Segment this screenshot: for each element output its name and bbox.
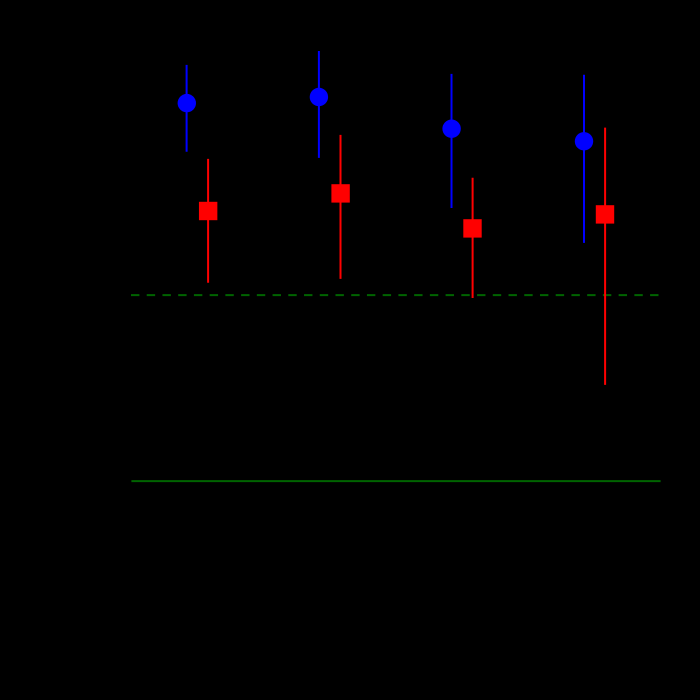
blue error bar 3 xyxy=(451,74,453,208)
blue error bar 1 xyxy=(186,65,188,152)
green solid reference line xyxy=(131,480,660,482)
blue error bar 2 xyxy=(318,51,320,158)
red point 2 xyxy=(331,184,349,202)
red error bar 1 xyxy=(207,159,209,283)
red error bar 4 xyxy=(604,128,606,385)
red point 1 xyxy=(199,202,217,220)
red point 4 xyxy=(596,205,614,223)
red point 3 xyxy=(463,219,481,237)
blue point 2 xyxy=(310,88,328,106)
blue point 4 xyxy=(575,132,593,150)
green dashed reference line xyxy=(131,294,659,296)
blue error bar 4 xyxy=(583,75,585,243)
blue point 1 xyxy=(178,94,196,112)
blue point 3 xyxy=(442,120,460,138)
red error bar 3 xyxy=(472,178,474,298)
red error bar 2 xyxy=(340,135,342,279)
